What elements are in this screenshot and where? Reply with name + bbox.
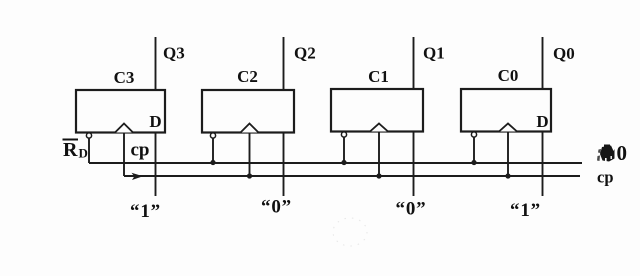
junction dot clock C1 / cp bus xyxy=(376,173,381,178)
wire Q3 output xyxy=(155,37,157,90)
svg-text:D: D xyxy=(149,112,161,131)
wire reset C1 down to clear bus xyxy=(343,137,345,163)
wire reset C2 down to clear bus xyxy=(212,138,214,163)
svg-text:cp: cp xyxy=(597,168,614,187)
label qing-0 (clear 0) smudged character xyxy=(597,145,615,162)
faint scan artifact circle xyxy=(333,218,367,246)
svg-text:Q1: Q1 xyxy=(423,44,445,63)
wire clear-0 bus (RD line) xyxy=(89,162,582,164)
flip-flop C2 body xyxy=(202,90,294,133)
clock triangle C1 xyxy=(370,124,388,132)
reset bubble C2 xyxy=(210,133,215,138)
wire D2 input to "0" xyxy=(283,133,285,197)
svg-text:“1”: “1” xyxy=(130,201,161,222)
svg-text:cp: cp xyxy=(131,140,150,161)
wire cp bus xyxy=(124,175,580,177)
junction dot reset C0 / clear bus xyxy=(471,160,476,165)
svg-text:“0”: “0” xyxy=(396,199,427,220)
wire Q0 output xyxy=(542,37,544,89)
wire reset C3 bubble down to clear bus xyxy=(88,138,90,163)
junction dot reset C1 / clear bus xyxy=(341,160,346,165)
clock triangle C2 xyxy=(241,124,259,133)
flip-flop C1 body xyxy=(331,89,423,132)
svg-text:“1”: “1” xyxy=(510,200,541,221)
wire clock C0 down to cp bus xyxy=(507,132,509,177)
flip-flop C0 body xyxy=(461,89,551,132)
svg-text:R: R xyxy=(63,139,78,161)
wire clock C1 down to cp bus xyxy=(378,132,380,177)
junction dot clock C2 / cp bus xyxy=(247,173,252,178)
arrowhead on cp bus xyxy=(132,173,144,180)
svg-text:0: 0 xyxy=(617,141,628,165)
flip-flop C3 body xyxy=(76,90,165,133)
clock triangle C0 xyxy=(499,124,517,132)
svg-text:Q0: Q0 xyxy=(553,44,575,63)
reset bubble C0 xyxy=(471,132,476,137)
svg-text:“0”: “0” xyxy=(261,197,292,218)
wire D0 input to "1" xyxy=(542,132,544,197)
svg-text:D: D xyxy=(536,112,548,131)
reset bubble C3 xyxy=(86,133,91,138)
wire Q1 output xyxy=(413,37,415,89)
svg-text:C2: C2 xyxy=(237,67,258,86)
wire reset C0 down to clear bus xyxy=(473,137,475,163)
label RD-bar xyxy=(63,139,88,161)
wire D1 input to "0" xyxy=(413,132,415,197)
junction dot clock C0 / cp bus xyxy=(505,173,510,178)
svg-text:C0: C0 xyxy=(498,66,519,85)
svg-text:Q2: Q2 xyxy=(294,44,316,63)
wire clock C2 down to cp bus xyxy=(249,133,251,177)
junction dot reset C2 / clear bus xyxy=(210,160,215,165)
wire Q2 output xyxy=(283,37,285,90)
svg-text:C1: C1 xyxy=(368,67,389,86)
wire clock C3 down to cp bus xyxy=(123,133,125,177)
reset bubble C1 xyxy=(341,132,346,137)
clock triangle C3 xyxy=(115,124,133,133)
wire D3 input to "1" xyxy=(155,133,157,197)
svg-text:Q3: Q3 xyxy=(163,44,185,63)
svg-text:D: D xyxy=(79,146,88,161)
svg-text:C3: C3 xyxy=(114,68,135,87)
